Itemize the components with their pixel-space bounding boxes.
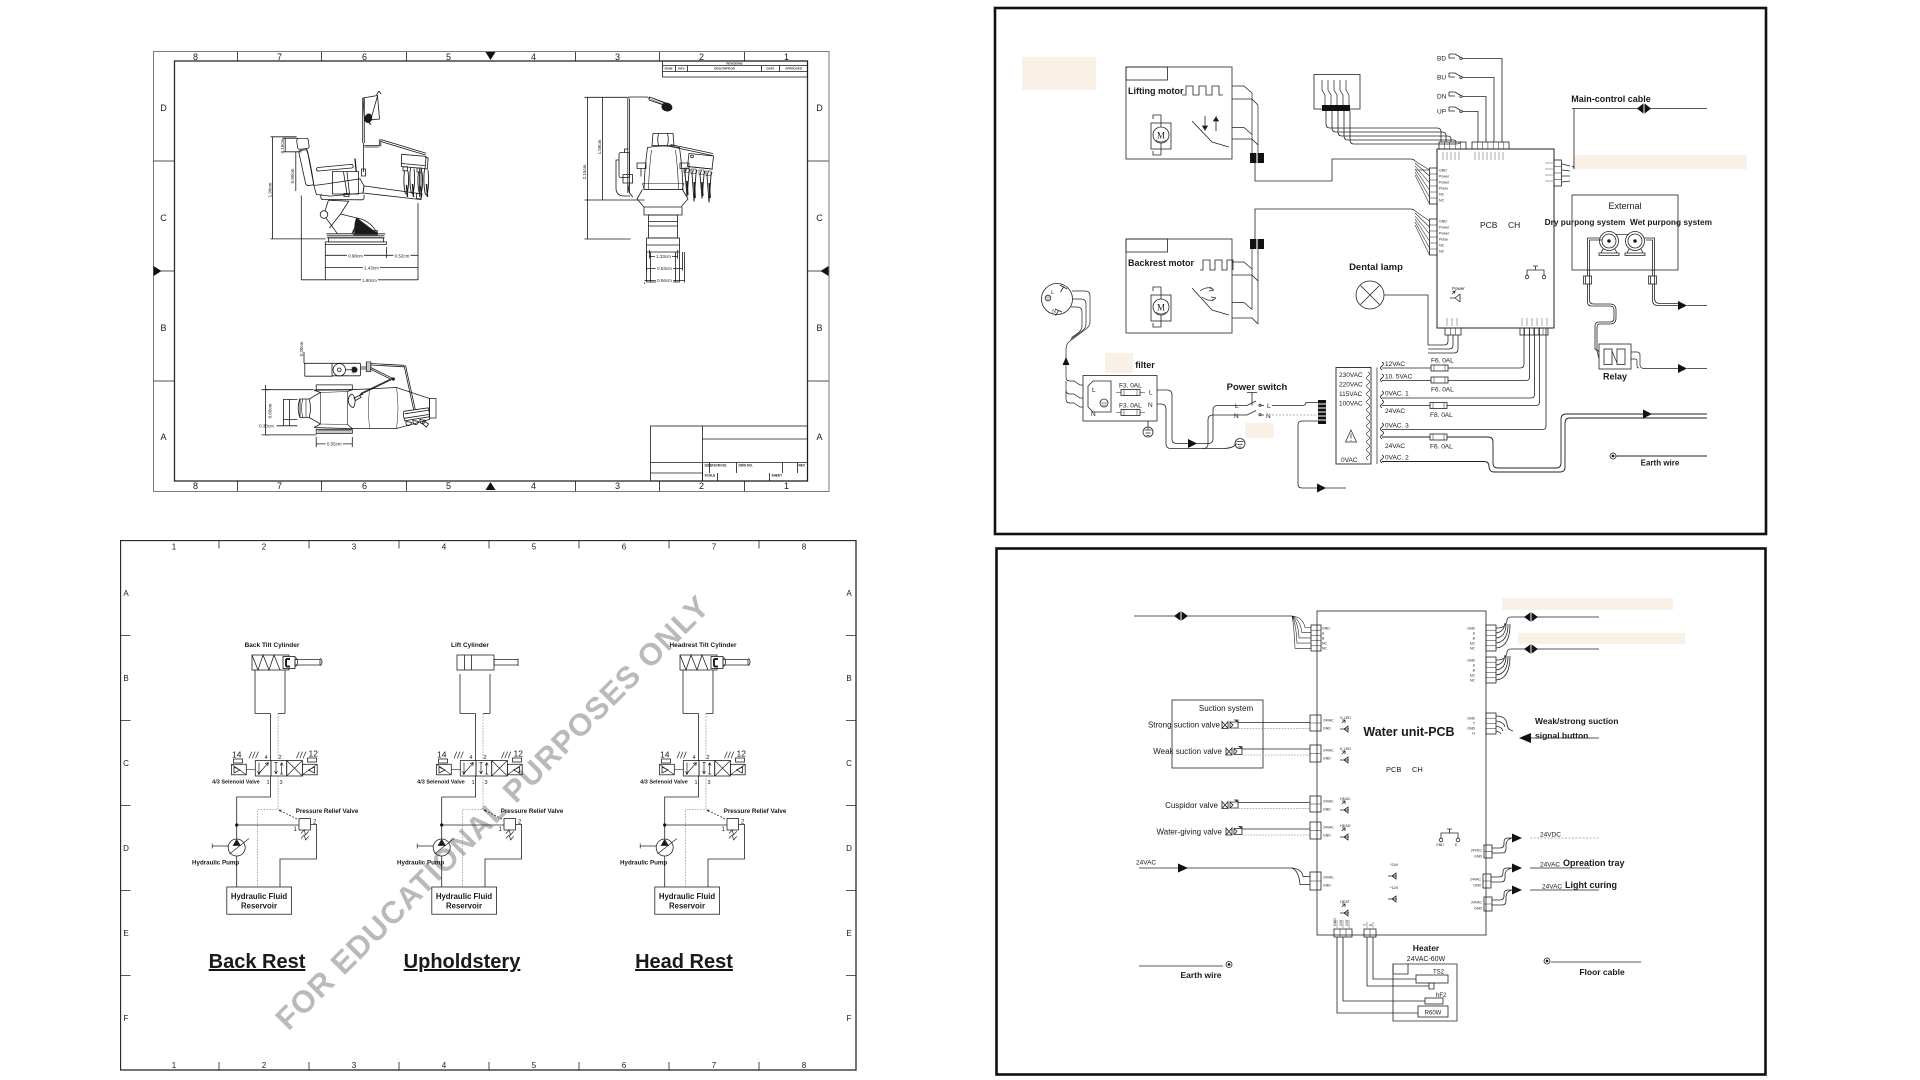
svg-text:GND: GND [1439,220,1447,224]
svg-text:Dry purpong system: Dry purpong system [1545,217,1626,227]
svg-text:L: L [1235,403,1239,410]
svg-text:8: 8 [802,1061,807,1070]
svg-text:8: 8 [802,543,807,552]
svg-text:M: M [1157,131,1165,141]
svg-text:2: 2 [262,543,267,552]
svg-text:Lifting motor: Lifting motor [1128,86,1184,96]
svg-text:5: 5 [446,52,451,62]
svg-text:Headrest Tilt Cylinder: Headrest Tilt Cylinder [669,642,737,649]
svg-text:Earth wire: Earth wire [1641,459,1680,468]
svg-text:DWG NO.: DWG NO. [739,464,753,468]
svg-text:4: 4 [531,481,536,491]
svg-text:0.30cm: 0.30cm [259,424,274,429]
svg-text:A: A [1473,632,1476,636]
svg-text:E: E [1455,843,1458,847]
svg-text:C: C [160,213,167,223]
svg-text:A: A [846,589,852,598]
svg-text:A: A [816,432,822,442]
svg-text:2: 2 [262,1061,267,1070]
svg-text:1.90cm: 1.90cm [267,182,272,197]
svg-text:0VAC: 0VAC [1341,457,1358,464]
svg-text:24VDC: 24VDC [1471,849,1483,853]
svg-text:F8. 0AL: F8. 0AL [1430,412,1453,419]
svg-text:PCB: PCB [1480,220,1498,230]
svg-text:GND: GND [1322,627,1330,631]
svg-text:BU: BU [1437,75,1446,82]
svg-text:HDAC: HDAC [1340,797,1351,801]
svg-text:External: External [1608,201,1641,211]
svg-text:A: A [1322,632,1325,636]
svg-text:Cuspidor valve: Cuspidor valve [1165,801,1218,810]
svg-text:Back Rest: Back Rest [209,951,306,973]
svg-text:S LED: S LED [1340,716,1351,720]
svg-text:A: A [160,432,166,442]
svg-text:1: 1 [784,52,789,62]
svg-text:Head Rest: Head Rest [635,951,733,973]
svg-text:C: C [846,759,852,768]
svg-text:Earth wire: Earth wire [1180,970,1221,980]
svg-text:7: 7 [712,1061,717,1070]
svg-text:GND: GND [1323,757,1331,761]
svg-text:E: E [846,929,851,938]
svg-text:GND: GND [1333,918,1337,926]
svg-text:7: 7 [277,52,282,62]
svg-text:2: 2 [699,481,704,491]
svg-text:24VAC: 24VAC [1323,800,1334,804]
svg-text:Pulse: Pulse [1439,238,1448,242]
svg-text:230VAC: 230VAC [1339,372,1363,379]
svg-text:220VAC: 220VAC [1339,382,1363,389]
svg-text:B: B [1473,637,1476,641]
svg-text:0.18cm: 0.18cm [280,138,285,153]
svg-text:DN: DN [1437,94,1447,101]
svg-text:Power: Power [1439,232,1450,236]
svg-text:FSCM NO.: FSCM NO. [712,464,728,468]
svg-text:SCALE: SCALE [705,474,716,478]
svg-text:NC: NC [1439,199,1445,203]
svg-text:4: 4 [442,543,447,552]
svg-text:5: 5 [532,543,537,552]
svg-text:L: L [1149,390,1153,397]
svg-text:GND: GND [1474,907,1482,911]
svg-text:Dental lamp: Dental lamp [1349,262,1403,273]
svg-text:CH: CH [1508,220,1520,230]
svg-text:3: 3 [615,52,620,62]
svg-text:·: · [1136,360,1139,370]
svg-text:Lift Cylinder: Lift Cylinder [451,642,489,649]
svg-text:signal button: signal button [1535,731,1588,741]
svg-text:Power: Power [1439,226,1450,230]
svg-text:100VAC: 100VAC [1339,401,1363,408]
svg-text:Relay: Relay [1603,372,1627,382]
svg-text:Heater: Heater [1413,943,1440,953]
svg-text:F6. 0AL: F6. 0AL [1431,387,1454,394]
svg-text:B: B [1322,637,1325,641]
svg-text:K LED: K LED [1340,747,1351,751]
svg-text:Light curing: Light curing [1565,880,1617,890]
svg-text:A: A [1473,664,1476,668]
svg-text:4: 4 [531,52,536,62]
svg-text:ZONE: ZONE [664,67,672,71]
svg-text:24VAC: 24VAC [1323,876,1334,880]
svg-text:0.98cm: 0.98cm [348,253,363,258]
svg-text:115VAC: 115VAC [1339,391,1363,398]
svg-text:GND: GND [1439,169,1447,173]
svg-text:NC: NC [1470,647,1476,651]
svg-text:D: D [816,103,823,113]
svg-text:F6. 0AL: F6. 0AL [1430,444,1453,451]
svg-text:F3. 0AL: F3. 0AL [1119,403,1142,410]
svg-text:0.60cm: 0.60cm [268,403,273,418]
svg-text:GND: GND [1436,843,1444,847]
svg-text:1: 1 [172,1061,177,1070]
svg-text:24VAC: 24VAC [1470,878,1481,882]
svg-text:12VAC: 12VAC [1385,361,1405,368]
svg-text:0.20cm: 0.20cm [299,341,304,356]
svg-text:Upholdstery: Upholdstery [404,951,522,973]
svg-text:NC: NC [1439,244,1445,248]
svg-text:24VDC: 24VDC [1540,832,1561,839]
svg-text:GND: GND [1467,717,1475,721]
svg-text:PCB: PCB [1386,765,1401,774]
svg-text:R60W: R60W [1425,1011,1442,1017]
svg-text:Back Tilt Cylinder: Back Tilt Cylinder [245,642,300,649]
svg-text:NC: NC [1322,647,1328,651]
svg-text:3: 3 [615,481,620,491]
svg-text:D: D [123,844,129,853]
svg-text:N: N [1091,411,1096,418]
svg-text:N: N [1148,402,1153,409]
svg-text:SHEET: SHEET [772,474,783,478]
svg-text:BD: BD [1437,56,1446,63]
svg-text:GND: GND [1473,884,1481,888]
svg-text:L: L [1092,387,1096,394]
svg-text:Strong suction valve: Strong suction valve [1148,721,1221,730]
svg-text:Water unit-PCB: Water unit-PCB [1363,725,1454,739]
svg-text:24VAC: 24VAC [1385,408,1405,415]
svg-text:Pulse: Pulse [1439,187,1448,191]
svg-text:24VAC: 24VAC [1323,719,1334,723]
svg-text:0.53cm: 0.53cm [657,266,672,271]
svg-text:24V: 24V [1339,919,1343,926]
svg-text:Power: Power [1439,181,1450,185]
svg-text:0.80cm: 0.80cm [290,168,295,183]
svg-text:B: B [160,323,166,333]
svg-text:F3. 0AL: F3. 0AL [1119,383,1142,390]
svg-text:NC: NC [1439,193,1445,197]
svg-text:NC: NC [1470,679,1476,683]
svg-text:E: E [123,929,128,938]
svg-text:6: 6 [362,52,367,62]
svg-text:2.15cm: 2.15cm [582,164,587,179]
svg-text:Power: Power [1439,175,1450,179]
svg-text:0VAC. 1: 0VAC. 1 [1385,391,1409,398]
svg-text:B: B [846,674,851,683]
svg-text:Weak/strong suction: Weak/strong suction [1535,716,1618,726]
svg-text:F: F [847,1014,852,1023]
svg-text:8: 8 [193,481,198,491]
svg-text:APPROVED: APPROVED [785,67,803,71]
svg-text:F: F [124,1014,129,1023]
svg-text:5: 5 [446,481,451,491]
svg-text:7: 7 [712,543,717,552]
svg-text:Suction system: Suction system [1199,704,1254,713]
svg-text:0VAC. 2: 0VAC. 2 [1385,455,1409,462]
svg-text:24VAC: 24VAC [1471,901,1482,905]
svg-text:B: B [1473,669,1476,673]
svg-text:hF2: hF2 [1436,993,1447,999]
svg-text:5: 5 [532,1061,537,1070]
svg-text:3: 3 [352,543,357,552]
svg-text:GND: GND [1474,855,1482,859]
svg-text:T: T [1473,722,1476,726]
svg-text:E: E [1369,923,1373,926]
svg-text:24VAC: 24VAC [1540,862,1560,869]
svg-text:A: A [123,589,129,598]
svg-text:10. 5VAC: 10. 5VAC [1385,374,1413,381]
svg-text:7: 7 [277,481,282,491]
svg-text:Backrest motor: Backrest motor [1128,258,1195,268]
svg-text:2: 2 [699,52,704,62]
svg-text:GND: GND [1323,727,1331,731]
svg-text:6: 6 [622,1061,627,1070]
svg-text:24V: 24V [1345,919,1349,926]
svg-text:Opreation tray: Opreation tray [1563,858,1625,868]
svg-text:1.58cm: 1.58cm [597,139,602,154]
svg-text:F6. 0AL: F6. 0AL [1431,358,1454,365]
svg-text:L: L [1051,290,1055,296]
svg-text:6: 6 [362,481,367,491]
svg-text:B: B [123,674,128,683]
svg-text:1.80cm: 1.80cm [362,278,377,283]
svg-text:24VAC-60W: 24VAC-60W [1407,956,1446,963]
svg-text:Water-giving valve: Water-giving valve [1156,828,1222,837]
svg-text:4: 4 [442,1061,447,1070]
svg-text:NC: NC [1322,642,1328,646]
svg-text:B: B [816,323,822,333]
svg-text:T: T [1363,923,1367,926]
svg-text:Power switch: Power switch [1227,382,1288,393]
svg-text:GND: GND [1323,834,1331,838]
svg-text:REV: REV [678,67,684,71]
svg-text:DATE: DATE [767,67,775,71]
svg-text:M: M [1157,303,1165,313]
svg-text:*24V: *24V [1390,863,1399,867]
svg-text:NC: NC [1439,250,1445,254]
svg-text:D: D [846,844,852,853]
svg-text:24VAC: 24VAC [1542,884,1562,891]
svg-text:L: L [1267,403,1271,410]
svg-text:GND: GND [1467,627,1475,631]
svg-text:C: C [123,759,129,768]
svg-text:8: 8 [193,52,198,62]
svg-text:NC: NC [1470,674,1476,678]
svg-text:N: N [1234,413,1239,420]
svg-text:GND: GND [1467,659,1475,663]
svg-text:DESCRIPTION: DESCRIPTION [714,67,735,71]
svg-text:D: D [160,103,167,113]
svg-text:*12V: *12V [1390,886,1399,890]
svg-text:Floor cable: Floor cable [1579,967,1625,977]
svg-text:1.33cm: 1.33cm [656,254,671,259]
svg-text:GND: GND [1467,727,1475,731]
svg-text:Main-control cable: Main-control cable [1571,94,1651,104]
svg-text:6: 6 [622,543,627,552]
svg-text:REVISIONS: REVISIONS [726,62,742,66]
svg-text:TS2: TS2 [1433,970,1445,976]
svg-text:GND: GND [1323,808,1331,812]
svg-text:Power: Power [1452,286,1465,291]
svg-text:G: G [1472,732,1475,736]
svg-text:UP: UP [1437,109,1446,116]
svg-text:CH: CH [1412,765,1423,774]
svg-text:HEAD: HEAD [1340,824,1351,828]
svg-text:24VAC: 24VAC [1136,860,1156,867]
svg-text:1: 1 [172,543,177,552]
svg-text:Weak suction valve: Weak suction valve [1153,747,1222,756]
svg-text:REV: REV [799,464,806,468]
svg-text:Wet purpong system: Wet purpong system [1630,217,1712,227]
svg-text:24VAC: 24VAC [1385,443,1405,450]
svg-text:HEAT: HEAT [1340,900,1351,904]
svg-text:24VAC: 24VAC [1323,749,1334,753]
svg-text:1: 1 [784,481,789,491]
svg-text:1.43cm: 1.43cm [364,266,379,271]
svg-text:0.56cm: 0.56cm [657,278,672,283]
svg-text:0VAC. 3: 0VAC. 3 [1385,423,1409,430]
svg-text:N: N [1266,413,1271,420]
svg-text:N: N [1052,309,1056,315]
svg-text:0.55cm: 0.55cm [327,442,342,447]
svg-text:GND: GND [1323,884,1331,888]
svg-text:0.52cm: 0.52cm [395,253,410,258]
svg-text:NC: NC [1470,642,1476,646]
svg-text:C: C [816,213,823,223]
svg-text:3: 3 [352,1061,357,1070]
svg-text:24VAC: 24VAC [1323,826,1334,830]
